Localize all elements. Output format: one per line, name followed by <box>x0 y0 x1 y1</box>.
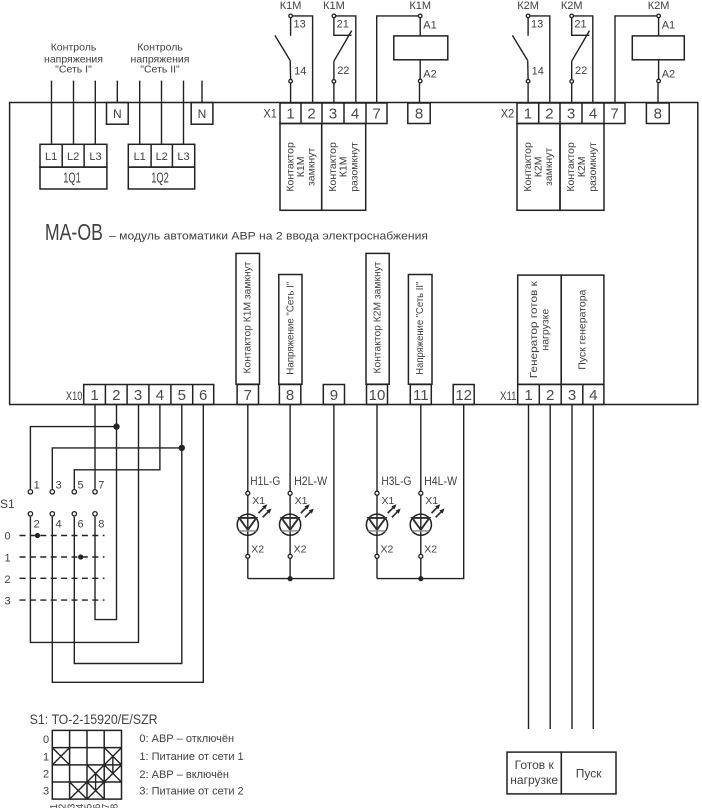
S1 contact 8 <box>93 512 97 516</box>
terminal X10:12 <box>453 385 474 405</box>
svg-text:Готов к: Готов к <box>515 758 555 772</box>
S1 contact 3 <box>50 490 54 494</box>
lamp H4L-W <box>410 405 457 579</box>
box "Пуск" <box>561 752 616 794</box>
svg-text:нагрузке: нагрузке <box>539 309 551 351</box>
breaker 1Q1 <box>40 144 107 189</box>
svg-text:замкнут: замкнут <box>543 148 555 187</box>
svg-text:Контроль: Контроль <box>137 41 183 53</box>
wire X10:1 to S1 contact 7 <box>94 405 96 489</box>
terminal strip X10 1-6 <box>66 385 214 405</box>
wire X10:5 to S1 contacts 3 and 6 <box>74 405 182 664</box>
svg-text:L1: L1 <box>134 151 146 163</box>
svg-text:2: 2 <box>4 574 10 586</box>
svg-text:X1: X1 <box>252 495 265 507</box>
connector col3 rows2-3 <box>95 773 97 790</box>
svg-text:К1М: К1М <box>323 0 345 12</box>
terminal X10:11 <box>410 385 431 405</box>
label box "Контактор К1М разомкнут" (X1 3-4) <box>322 124 366 211</box>
svg-text:Напряжение "Сеть I": Напряжение "Сеть I" <box>284 281 296 374</box>
svg-text:Генератор готов к: Генератор готов к <box>528 281 540 378</box>
svg-text:X2: X2 <box>381 543 394 555</box>
coil K1M <box>394 0 448 103</box>
svg-text:3: 3 <box>329 105 337 122</box>
junction X10:2 branch <box>113 423 119 429</box>
box "Готов к нагрузке" <box>507 752 561 794</box>
svg-text:L1: L1 <box>45 151 57 163</box>
svg-text:X1: X1 <box>263 107 277 121</box>
terminal strip X1 <box>263 103 430 124</box>
svg-text:разомкнут: разомкнут <box>349 142 361 192</box>
svg-text:S1: S1 <box>0 497 15 511</box>
svg-text:Контактор К2М замкнут: Контактор К2М замкнут <box>372 261 384 373</box>
junction X10:5 branch <box>179 445 185 451</box>
terminal strip X2 <box>501 103 669 124</box>
label box "Контактор К2М замкнут" (X2 1-2) <box>517 124 560 211</box>
svg-text:К2М: К2М <box>648 0 670 12</box>
lamp H1L-G <box>237 405 280 579</box>
svg-text:8: 8 <box>98 518 104 530</box>
svg-text:14: 14 <box>294 66 306 78</box>
svg-text:разомкнут: разомкнут <box>587 142 599 192</box>
wire input2 L3 <box>183 81 185 145</box>
label box "Напряжение Сеть I" (X10:8) <box>279 275 302 385</box>
svg-text:Контроль: Контроль <box>51 41 97 53</box>
svg-text:8: 8 <box>286 387 294 404</box>
wire input2 L2 <box>161 81 163 145</box>
label box "Контактор К2М разомкнут" (X2 3-4) <box>560 124 604 211</box>
wire X11:3 to start box <box>571 405 573 730</box>
svg-text:Х10: Х10 <box>66 389 83 403</box>
wire input1 L3 <box>94 81 96 145</box>
svg-text:3: 3 <box>568 387 576 404</box>
svg-text:H2L-W: H2L-W <box>294 474 328 488</box>
contact K2M 13-14 (NO) <box>512 0 543 103</box>
svg-text:10: 10 <box>369 387 386 404</box>
svg-text:X1: X1 <box>382 495 395 507</box>
svg-text:1: 1 <box>286 105 294 122</box>
svg-text:8: 8 <box>109 803 120 808</box>
wire lamps 1-2 common to X10:9 <box>248 405 334 579</box>
svg-text:0: 0 <box>4 531 10 543</box>
S1 position table grid <box>52 730 121 799</box>
svg-text:7: 7 <box>372 105 380 122</box>
svg-text:12: 12 <box>455 387 472 404</box>
label box "Контактор К1М замкнут" (X10:7) <box>236 253 260 384</box>
terminal X10:7 <box>237 385 258 405</box>
svg-text:13: 13 <box>294 19 306 31</box>
svg-text:К2М: К2М <box>517 0 539 12</box>
X mark row1 col4 <box>104 748 121 765</box>
wire X11:2 to generator box <box>549 405 551 730</box>
svg-text:0: АВР – отключён: 0: АВР – отключён <box>139 733 234 745</box>
svg-text:К2М: К2М <box>561 0 583 12</box>
svg-text:22: 22 <box>575 65 587 77</box>
svg-text:6: 6 <box>78 518 84 530</box>
label box "Пуск генератора" (X11 3-4) <box>561 275 604 384</box>
svg-text:1: 1 <box>524 105 532 122</box>
svg-text:– модуль автоматики АВР на 2 в: – модуль автоматики АВР на 2 ввода элект… <box>109 230 428 242</box>
svg-text:3: 3 <box>134 387 142 404</box>
svg-text:А1: А1 <box>423 19 436 31</box>
label box "Генератор готов к нагрузке" (X11 1-2) <box>518 275 562 384</box>
svg-text:"Сеть II": "Сеть II" <box>140 64 180 76</box>
wire input1 N <box>116 81 118 103</box>
svg-text:1: 1 <box>34 480 40 492</box>
svg-text:L3: L3 <box>177 151 189 163</box>
svg-text:Напряжение "Сеть II": Напряжение "Сеть II" <box>414 281 426 374</box>
terminal X10:10 <box>367 385 388 405</box>
svg-text:X2: X2 <box>501 107 515 121</box>
X mark row2 col3 <box>87 765 104 782</box>
wire K1M 21 to X1:4 <box>336 16 356 103</box>
svg-text:7: 7 <box>610 105 618 122</box>
svg-text:К1М: К1М <box>280 0 302 12</box>
svg-text:"Сеть I": "Сеть I" <box>55 64 92 76</box>
svg-text:Пуск: Пуск <box>576 767 602 781</box>
wire X10:6 to S1 contact 4 <box>52 405 203 683</box>
svg-text:2: 2 <box>43 769 49 781</box>
wire K2M 13 to X2:2 <box>530 16 550 103</box>
S1 contact 4 <box>50 512 54 516</box>
svg-text:2: 2 <box>307 105 315 122</box>
svg-text:22: 22 <box>337 65 349 77</box>
svg-text:Пуск генератора: Пуск генератора <box>577 289 589 369</box>
junction lamp2 common <box>288 576 293 581</box>
svg-text:6: 6 <box>199 387 207 404</box>
svg-text:8: 8 <box>415 105 423 122</box>
terminal X10:8 <box>279 385 300 405</box>
S1 contact 2 <box>28 512 32 516</box>
svg-text:8: 8 <box>654 105 662 122</box>
svg-text:2: АВР – включён: 2: АВР – включён <box>139 769 229 781</box>
svg-text:3: 3 <box>4 596 10 608</box>
X mark row3 col3 <box>87 782 104 799</box>
svg-text:9: 9 <box>330 387 338 404</box>
svg-text:5: 5 <box>78 480 84 492</box>
terminal N input2 <box>191 103 213 125</box>
junction lamp4 common <box>418 576 423 581</box>
svg-text:X1: X1 <box>425 495 438 507</box>
terminal N input1 <box>107 103 129 125</box>
svg-text:13: 13 <box>531 19 543 31</box>
svg-text:4: 4 <box>156 387 164 404</box>
svg-text:1: Питание от сети 1: 1: Питание от сети 1 <box>139 751 243 763</box>
svg-text:X1: X1 <box>295 495 308 507</box>
svg-text:А2: А2 <box>423 68 436 80</box>
wire K1M 13 to X1:2 <box>293 16 313 103</box>
svg-text:4: 4 <box>56 518 62 530</box>
svg-text:0: 0 <box>43 734 49 746</box>
svg-text:N: N <box>198 107 207 121</box>
wire X10:4 to S1 contact 5 <box>74 405 160 489</box>
terminal X1:8 <box>408 103 430 124</box>
svg-text:S1: ТО-2-15920/Е/SZR: S1: ТО-2-15920/Е/SZR <box>30 712 158 727</box>
svg-text:2: 2 <box>546 387 554 404</box>
wire X2:7 to coil K2M A1 <box>615 16 657 103</box>
svg-text:1: 1 <box>90 387 98 404</box>
wire X11:4 to start box <box>592 405 594 730</box>
svg-text:4: 4 <box>589 105 597 122</box>
label box "Контактор К1М замкнут" (X1 1-2) <box>280 124 322 211</box>
svg-text:7: 7 <box>98 480 104 492</box>
svg-text:1Q1: 1Q1 <box>63 171 81 187</box>
svg-text:1: 1 <box>4 552 10 564</box>
svg-text:H3L-G: H3L-G <box>381 474 411 488</box>
coil K2M <box>632 0 684 103</box>
svg-text:11: 11 <box>413 387 429 404</box>
table column labels 1-8 (rotated, clipped) <box>49 803 120 808</box>
label box "Контактор К2М замкнут" (X10:10) <box>366 253 389 384</box>
breaker 1Q2 <box>128 144 194 189</box>
connector col4 rows1-2 <box>112 756 114 773</box>
svg-text:2: 2 <box>112 387 120 404</box>
wire X10:2 to S1 contacts 1 and 8 <box>95 405 117 620</box>
wire X10:3 to S1 contact 2 <box>30 405 138 643</box>
svg-text:L2: L2 <box>156 151 168 163</box>
svg-text:МА-ОВ: МА-ОВ <box>45 219 103 245</box>
wire X11:1 to generator box <box>528 405 530 730</box>
svg-text:А2: А2 <box>662 68 675 80</box>
svg-text:замкнут: замкнут <box>306 148 318 187</box>
wire K2M 21 to X2:4 <box>574 16 593 103</box>
svg-text:2: 2 <box>545 105 553 122</box>
contact K2M 21-22 (NC) <box>561 0 590 103</box>
svg-text:1: 1 <box>524 387 532 404</box>
svg-text:L2: L2 <box>67 151 79 163</box>
terminal X10:9 <box>323 385 344 405</box>
svg-text:21: 21 <box>574 19 586 31</box>
svg-text:Контактор К1М замкнут: Контактор К1М замкнут <box>242 261 254 373</box>
svg-text:3: 3 <box>56 480 62 492</box>
wire input1 L2 <box>73 81 75 145</box>
wire input2 N <box>201 81 203 103</box>
svg-text:5: 5 <box>178 387 186 404</box>
S1 contact 7 <box>93 490 97 494</box>
contact K1M 21-22 (NC) <box>323 0 352 103</box>
terminal strip X11 1-4 <box>500 384 604 404</box>
svg-text:4: 4 <box>589 387 597 404</box>
svg-text:4: 4 <box>351 105 359 122</box>
svg-text:А1: А1 <box>662 19 675 31</box>
svg-text:3: 3 <box>43 786 49 798</box>
svg-text:X2: X2 <box>251 543 264 555</box>
svg-text:К1М: К1М <box>409 0 431 12</box>
contact K1M 13-14 (NO) <box>275 0 306 103</box>
lamp H2L-W <box>280 405 328 579</box>
svg-text:3: 3 <box>567 105 575 122</box>
label "Контроль напряжения Сеть I" <box>44 41 103 75</box>
svg-text:нагрузке: нагрузке <box>510 773 558 787</box>
svg-text:21: 21 <box>337 19 349 31</box>
svg-text:14: 14 <box>532 66 544 78</box>
X mark row1 col1 <box>52 748 69 765</box>
terminal X2:8 <box>646 103 669 124</box>
X mark row2 col4 <box>104 765 121 782</box>
module U-MA-OV outline <box>10 103 698 405</box>
svg-text:1Q2: 1Q2 <box>151 171 169 187</box>
svg-text:3: Питание от сети 2: 3: Питание от сети 2 <box>139 786 243 798</box>
svg-text:7: 7 <box>244 387 252 404</box>
S1 contact 6 <box>72 512 76 516</box>
X mark row3 col2 <box>70 782 87 799</box>
svg-text:H4L-W: H4L-W <box>424 474 458 488</box>
wire lamps 3-4 common to X10:12 <box>377 405 464 579</box>
wire X1:7 to coil K1M A1 <box>377 16 418 103</box>
svg-text:2: 2 <box>34 518 40 530</box>
wire input2 L1 <box>139 81 141 145</box>
label box "Напряжение Сеть II" (X10:11) <box>408 275 432 385</box>
svg-text:Х11: Х11 <box>500 389 517 403</box>
svg-text:H1L-G: H1L-G <box>250 474 280 488</box>
S1 contact 5 <box>72 490 76 494</box>
svg-text:X2: X2 <box>294 543 307 555</box>
svg-text:1: 1 <box>43 751 49 763</box>
svg-text:X2: X2 <box>424 543 437 555</box>
label "Контроль напряжения Сеть II" <box>131 41 190 75</box>
svg-text:L3: L3 <box>89 151 101 163</box>
svg-text:N: N <box>113 107 122 121</box>
lamp H3L-G <box>366 405 411 579</box>
wire input1 L1 <box>51 81 53 145</box>
S1 contact 1 <box>28 490 32 494</box>
